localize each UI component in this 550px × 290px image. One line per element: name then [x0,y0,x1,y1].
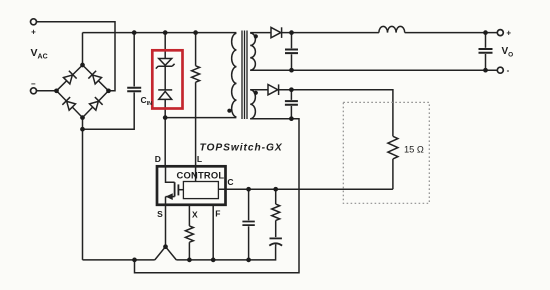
wire L pin internal [195,166,197,181]
node output minus terminal [497,67,503,73]
transformer T1 core [242,31,247,120]
diode D2 output rectifier [271,27,281,37]
IC U1 TOPSwitch-GX body [157,166,226,205]
zener VR1 clamp [164,33,166,59]
resistor R4 series [275,189,277,204]
svg-text:-: - [507,66,510,75]
node bridge bottom [80,115,85,120]
svg-text:S: S [157,209,163,219]
diode bridge top-left [63,71,77,85]
wire from - terminal to bridge left vertex [37,90,57,92]
resistor R1 line sense [195,33,197,66]
node output cap top [483,30,488,35]
wire bias winding to diode D3 [250,89,268,91]
wire S pin [165,205,167,247]
node rail CIN [132,30,137,35]
capacitor CIN [133,33,135,87]
transformer T1 bias winding bottom [250,90,255,119]
node AC plus terminal [31,19,37,25]
polarity dot primary [227,109,231,113]
svg-text:15 Ω: 15 Ω [404,145,424,155]
svg-text:C: C [227,177,233,187]
wire from + terminal to bridge right vertex [37,22,116,91]
wire bias return [135,119,300,273]
node rail F [211,258,216,263]
capacitor C6 series polarized [275,220,277,237]
svg-text:TOPSwitch-GX: TOPSwitch-GX [200,143,283,154]
polarity dot secondary [254,34,258,38]
transistor Q1 MOSFET [166,166,175,182]
transformer T1 secondary winding top [250,33,255,70]
node AC minus terminal [31,88,37,94]
wire F pin [212,205,214,260]
wire bridge bottom vertex down [82,118,84,260]
dashed box load [343,102,429,203]
node bridge top [80,63,85,68]
highlight box clamp [152,50,182,108]
wire inductor to output + [405,32,498,34]
inductor L1 output filter [379,26,405,32]
capacitor C1 output [291,33,293,49]
wire C pin line [218,188,393,190]
node CIN return [80,127,85,132]
control block rectangle [183,182,218,199]
node output diode cathode [289,30,294,35]
node C1 bottom [289,68,294,73]
node bias cap bottom [289,116,294,121]
wire bias diode to load resistor [279,90,393,137]
wire zener to diode [164,66,166,90]
wire secondary top lead to output diode [250,32,271,34]
node C pin cap [246,187,251,192]
resistor R2 15 ohm load [388,136,398,159]
svg-text:CONTROL: CONTROL [177,170,225,181]
diode D1 blocking [158,89,172,91]
node rail C5 [246,258,251,263]
svg-text:D: D [155,154,161,164]
resistor R3 X pin [188,205,190,226]
svg-text:+: + [506,29,511,38]
wire source tent junction [155,247,177,260]
svg-text:−: − [31,80,36,89]
wire diode to filter inductor [282,32,379,34]
node bridge right [106,88,111,93]
polarity dot bias [254,91,258,95]
node output cap bottom [483,68,488,73]
node bridge left [54,88,59,93]
node C pin RC [273,187,278,192]
diode bridge top-right [88,71,102,85]
svg-text:+: + [31,28,36,37]
diode bridge bottom-left [62,97,76,111]
diode bridge bottom-right [89,97,103,111]
svg-text:F: F [215,209,220,219]
node rail line resistor [193,30,198,35]
transformer T1 primary winding [232,33,237,117]
wire bridge top vertex to DC+ rail [82,33,84,65]
diode D3 bias rectifier [268,85,278,95]
svg-text:L: L [197,154,202,164]
node bias diode cathode [289,87,294,92]
wire bottom source rail [83,259,155,261]
svg-text:X: X [192,210,198,220]
node rail X resistor [187,258,192,263]
wire DC+ top rail [83,32,237,34]
node source apex [163,244,168,249]
node rail clamp [163,30,168,35]
wire secondary return rail [250,69,497,71]
capacitor C5 control [248,189,250,220]
bridge rectifier BR1 edges [57,65,109,118]
node output plus terminal [497,30,503,36]
capacitor C3 final output [485,33,487,48]
node drain [163,115,168,120]
wire primary bottom to drain node [165,117,236,119]
wire drain node to D pin [164,118,166,167]
capacitor C2 bias [290,90,292,100]
node rail jog [132,258,137,263]
